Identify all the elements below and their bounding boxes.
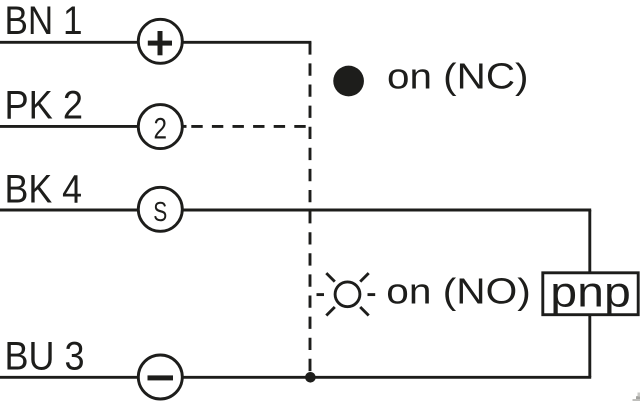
svg-text:PK 2: PK 2: [5, 83, 84, 127]
svg-text:BN 1: BN 1: [5, 0, 83, 43]
svg-text:on (NC): on (NC): [387, 55, 529, 96]
svg-text:on (NO): on (NO): [386, 270, 531, 311]
svg-text:S: S: [153, 196, 167, 227]
svg-text:pnp: pnp: [550, 270, 631, 317]
svg-text:BK 4: BK 4: [5, 167, 83, 211]
svg-text:2: 2: [154, 113, 168, 146]
svg-text:BU 3: BU 3: [5, 334, 85, 378]
